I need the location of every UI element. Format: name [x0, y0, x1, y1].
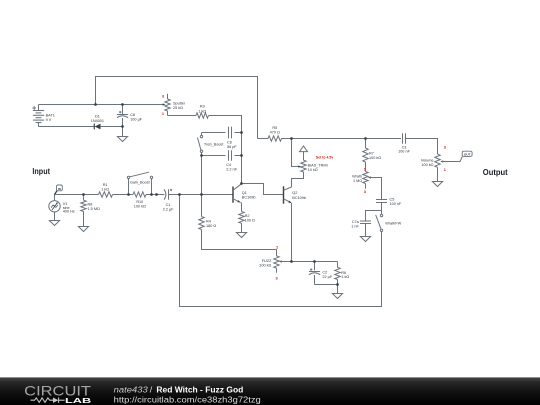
svg-text:25 kΩ: 25 kΩ: [173, 106, 183, 110]
svg-text:Red Witch - Fuzz God: Red Witch - Fuzz God: [156, 385, 243, 395]
svg-text:100 µF: 100 µF: [130, 118, 143, 122]
svg-text:Gain_Boost: Gain_Boost: [130, 181, 151, 185]
svg-text:R10: R10: [136, 200, 143, 204]
svg-text:Output: Output: [483, 167, 508, 177]
svg-text:BAT1: BAT1: [46, 113, 55, 117]
svg-text:R3: R3: [200, 105, 205, 109]
svg-text:FUZZ: FUZZ: [262, 259, 272, 263]
svg-text:C4: C4: [226, 163, 231, 167]
svg-text:Volume: Volume: [421, 158, 434, 162]
svg-text:180 Ω: 180 Ω: [206, 224, 216, 228]
svg-text:1 kΩ: 1 kΩ: [101, 187, 109, 191]
svg-text:D1: D1: [95, 114, 100, 118]
svg-text:http://circuitlab.com/ce38zh3g: http://circuitlab.com/ce38zh3g72tzg: [114, 394, 261, 404]
svg-text:Set to 4.5v: Set to 4.5v: [316, 155, 334, 159]
svg-text:R2: R2: [245, 214, 250, 218]
svg-text:BC109b: BC109b: [242, 196, 256, 200]
svg-text:IN: IN: [58, 187, 61, 191]
svg-text:1.5 MΩ: 1.5 MΩ: [88, 207, 100, 211]
svg-text:OUT: OUT: [464, 152, 471, 156]
svg-text:Q2: Q2: [292, 191, 297, 195]
svg-text:1 nF: 1 nF: [351, 224, 359, 228]
svg-text:1N4001: 1N4001: [91, 119, 104, 123]
svg-text:Input: Input: [32, 166, 50, 176]
svg-text:2.2 µF: 2.2 µF: [163, 208, 175, 212]
svg-text:R8: R8: [88, 202, 93, 206]
svg-text:Q1: Q1: [242, 191, 247, 195]
svg-text:1 MΩ: 1 MΩ: [353, 179, 362, 183]
svg-text:Wrath: Wrath: [352, 174, 362, 178]
svg-text:R1: R1: [103, 183, 108, 187]
svg-text:1 kΩ: 1 kΩ: [341, 275, 349, 279]
svg-text:C5: C5: [390, 198, 395, 202]
svg-text:R7: R7: [369, 151, 374, 155]
svg-text:C1: C1: [166, 203, 171, 207]
svg-text:Sputter: Sputter: [173, 101, 186, 105]
svg-text:470 Ω: 470 Ω: [270, 131, 280, 135]
svg-text:100 kΩ: 100 kΩ: [134, 205, 146, 209]
svg-text:1 kΩ: 1 kΩ: [198, 109, 206, 113]
svg-text:Treb_Boost: Treb_Boost: [204, 143, 224, 147]
svg-text:2.2 nF: 2.2 nF: [226, 168, 237, 172]
svg-text:R4: R4: [206, 219, 211, 223]
svg-text:C7a: C7a: [352, 220, 360, 224]
svg-text:100 nF: 100 nF: [398, 150, 411, 154]
svg-text:100 kΩ: 100 kΩ: [259, 264, 271, 268]
svg-text:C8: C8: [130, 113, 135, 117]
svg-text:10 kΩ: 10 kΩ: [308, 168, 318, 172]
svg-text:BIAS_TRIM: BIAS_TRIM: [308, 164, 328, 168]
svg-text:C6: C6: [227, 141, 232, 145]
svg-text:BC109b: BC109b: [292, 196, 306, 200]
svg-text:100 Ω: 100 Ω: [245, 219, 255, 223]
svg-text:56 pF: 56 pF: [227, 145, 237, 149]
svg-text:R5: R5: [272, 126, 277, 130]
svg-text:100 kΩ: 100 kΩ: [421, 163, 433, 167]
svg-text:22 µF: 22 µF: [322, 275, 332, 279]
svg-text:100 kΩ: 100 kΩ: [369, 156, 381, 160]
svg-text:9 V: 9 V: [46, 118, 52, 122]
svg-text:400 Hz: 400 Hz: [63, 210, 75, 214]
svg-text:nate433: nate433: [114, 385, 148, 395]
svg-text:100 nF: 100 nF: [390, 202, 403, 206]
svg-text:LAB: LAB: [65, 396, 91, 405]
svg-text:WrathFW: WrathFW: [385, 222, 401, 226]
